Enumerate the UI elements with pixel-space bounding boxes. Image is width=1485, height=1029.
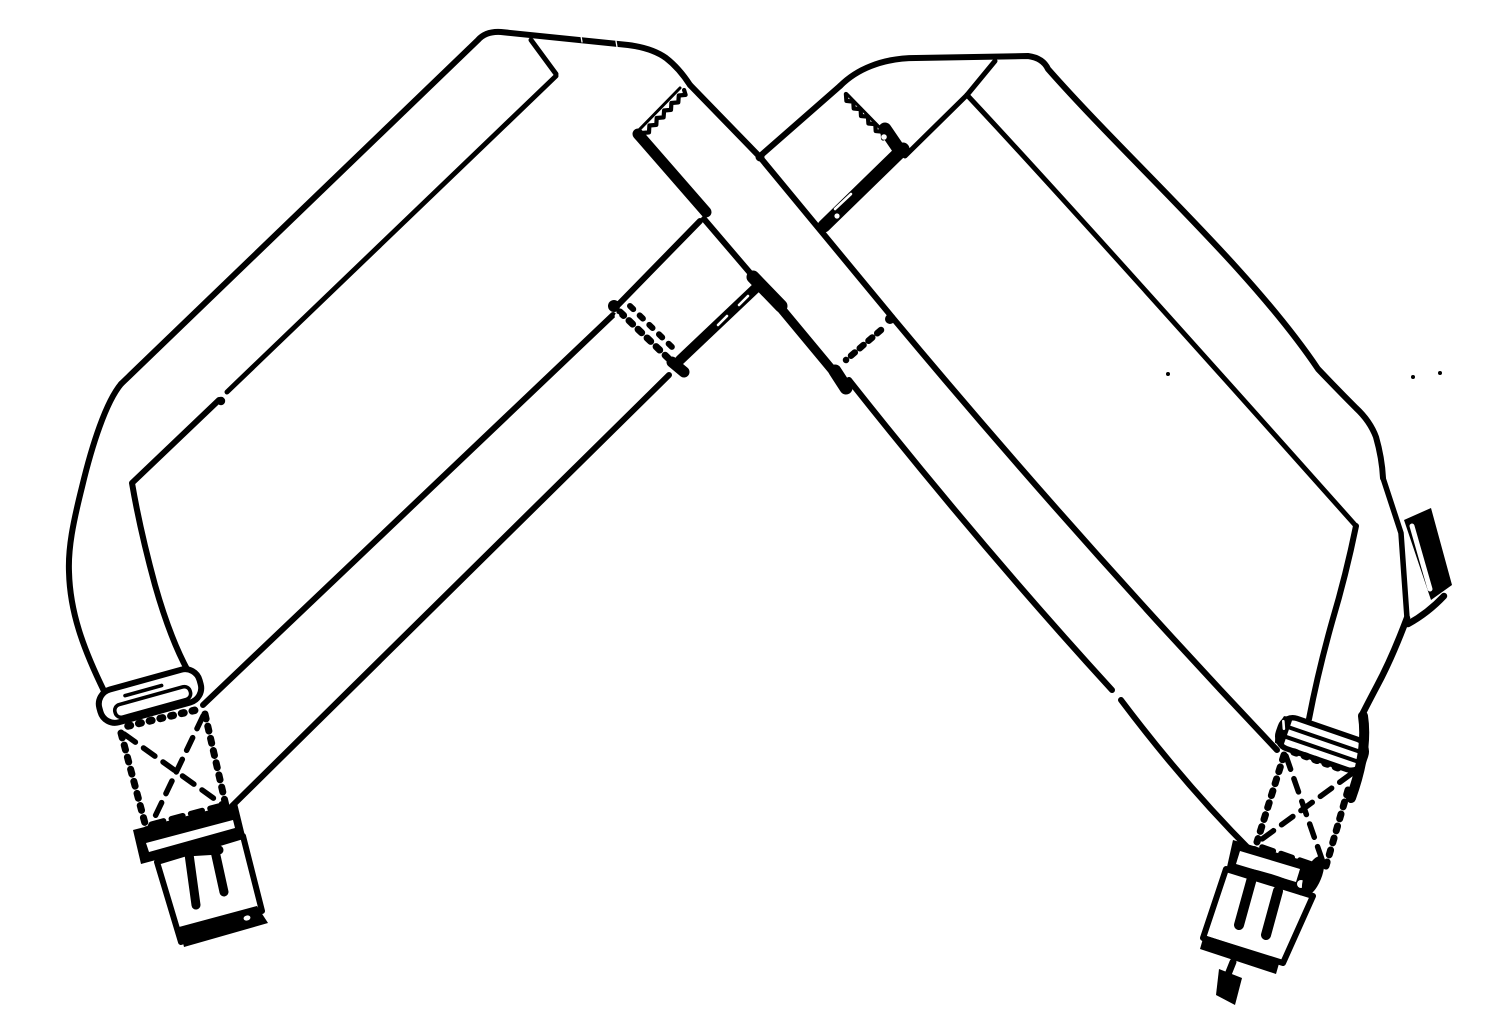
left X-box diagonal dashes	[124, 734, 223, 805]
left hook bottom band	[179, 906, 268, 947]
webbing loop tab at right pad lower end	[1404, 508, 1452, 600]
behind strap lower edge reappearing	[680, 287, 757, 360]
left X-box bottom dashed line	[152, 806, 219, 824]
right slide buckle	[1272, 714, 1369, 774]
stitch zigzag S2 at right pad top end	[846, 94, 883, 139]
dotted scallops under left buckle	[128, 710, 196, 726]
top strap lower edge (stitch 4 to right X-box)	[849, 380, 1112, 690]
top strap upper edge (kink to stitch 4)	[759, 156, 892, 317]
webbing right edge down to right buckle	[1363, 618, 1407, 713]
right pad top edge and outer edge	[840, 56, 1383, 478]
behind strap lower edge thick from right pad	[824, 149, 903, 226]
right X-box diagonal dashes	[1286, 756, 1325, 868]
left pad left-end curve into lower webbing left edge	[69, 384, 121, 691]
stitch S3 dotted rows below crossing (left)	[620, 312, 668, 358]
behind strap lower edge long run to left X-box	[227, 375, 669, 811]
top strap lower edge thick blob where behind strap passes under	[753, 277, 781, 306]
left pad seam (bottom edge) upper segment	[227, 76, 556, 392]
right hook E-shaped prongs	[1245, 872, 1302, 891]
white nicks on left pad top edge	[581, 36, 582, 42]
right pad seam into webbing left edge	[1309, 526, 1356, 719]
left pad end edge	[531, 40, 556, 74]
behind strap upper edge from right pad top	[759, 86, 840, 157]
left hook body	[157, 836, 262, 942]
top strap lower edge mid segment	[704, 219, 757, 281]
right X-box bottom dashed line	[1262, 847, 1317, 866]
right pad seam (inner edge)	[967, 95, 1356, 526]
right pad end edge	[905, 95, 967, 156]
left pad outer edge and top edge	[121, 32, 690, 384]
left hook collar	[133, 803, 245, 864]
stitch S3 end blobs	[608, 300, 620, 312]
top strap upper edge (left pad to kink where behind strap passes under)	[690, 85, 759, 156]
right hook junction blob	[1297, 853, 1328, 898]
top strap lower edge to stitch 4	[779, 306, 838, 377]
right hook body	[1203, 869, 1313, 963]
right X-box stitched edges	[1257, 755, 1284, 842]
stitch S4 dotted line across top strap	[846, 330, 881, 360]
right hook tail	[1227, 962, 1233, 977]
stitch S2 bottom blob	[847, 94, 888, 136]
left X-box stitched edges	[121, 733, 147, 831]
behind strap upper edge long run to left buckle	[203, 315, 613, 705]
tab sweep curve joining webbing edge	[1408, 596, 1444, 624]
right hook collar	[1225, 840, 1312, 899]
left hook m-shaped prongs	[186, 850, 219, 852]
stitch zigzag S1 at left pad top end	[638, 88, 680, 131]
behind strap upper edge reappearing left of top strap	[616, 221, 700, 307]
scan flecks	[1166, 372, 1170, 376]
stitch S4 end blobs	[885, 314, 895, 324]
top strap upper edge (stitch bend to right buckle)	[892, 317, 1277, 750]
right hook bottom band	[1200, 935, 1280, 974]
left pad seam lower segment into webbing right edge	[217, 397, 225, 405]
left slide buckle	[95, 666, 204, 727]
dotted scallops under right buckle	[1294, 752, 1344, 770]
top strap lower edge thick wedge at pad end	[638, 134, 706, 212]
